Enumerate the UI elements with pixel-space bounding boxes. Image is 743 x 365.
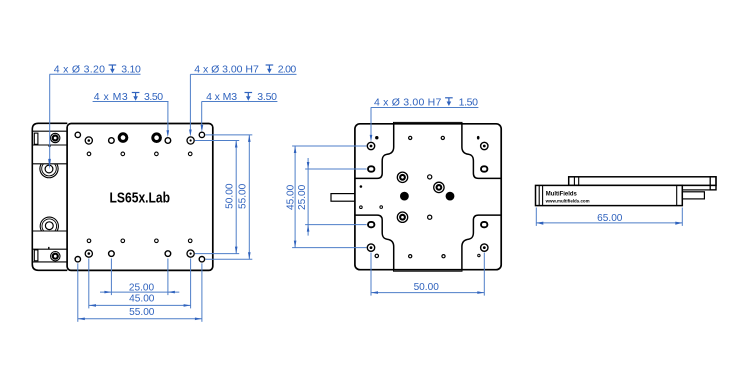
bracket bottom band bottom line — [32, 261, 67, 263]
25.00 dim line outside segments — [100, 291, 179, 293]
bracket boss1 top line — [32, 163, 67, 165]
55.00 vertical dim line — [248, 135, 250, 259]
55.00 left-view arrows — [248, 135, 251, 142]
bracket line top band bottom — [32, 144, 67, 146]
45-spacing hole TR outer — [187, 137, 194, 144]
small holes bottom row — [87, 239, 91, 243]
label1 leader — [49, 74, 51, 161]
bracket tiny dot — [49, 145, 51, 147]
label3 leader — [189, 74, 191, 133]
svg-text:65.00: 65.00 — [597, 213, 623, 224]
45-spacing hole BL outer — [85, 250, 92, 257]
lead screw tab left — [331, 194, 355, 202]
55.00 dim line — [78, 318, 202, 320]
25-spacing hole BR — [165, 251, 171, 257]
65.00 arrows — [536, 222, 543, 225]
45-spacing hole BR dot — [190, 253, 192, 255]
corner hole TR — [199, 132, 204, 137]
25-spacing hole TL — [109, 138, 115, 144]
center screw 1 — [397, 172, 407, 182]
small mark top-right filled — [477, 136, 480, 140]
dowel hole dia3 H7 TL — [367, 142, 374, 149]
dowel hole dia3 H7 BR — [481, 244, 488, 251]
corner hole BR — [199, 257, 204, 262]
arrowheads — [48, 125, 682, 320]
25.00 vertical dim outside segments center — [307, 158, 309, 236]
45.00 vertical dim line center — [294, 146, 296, 248]
bracket bottom band slot rect — [34, 250, 38, 261]
small holes bottom middle — [409, 255, 412, 258]
65.00 dim line — [536, 222, 682, 224]
45-spacing hole BL dot — [88, 252, 91, 255]
screw tab right — [682, 192, 704, 199]
center small hole bottom — [428, 215, 432, 219]
svg-text:50.00: 50.00 — [414, 282, 440, 293]
leader arrow label3 — [189, 130, 192, 137]
svg-text:4 x Ø 3.00 H7: 4 x Ø 3.00 H7 — [374, 96, 441, 108]
depth symbol label2 — [132, 93, 140, 101]
center filled dowel right — [446, 192, 455, 201]
small holes top row — [87, 152, 91, 156]
50.00 vertical dim line — [235, 141, 237, 254]
center small hole top — [428, 175, 432, 179]
label4 leader — [201, 102, 203, 130]
45-spacing hole TR dot — [190, 139, 192, 141]
corner hole TL — [75, 132, 80, 137]
obround slot BL — [368, 222, 374, 227]
lower bar left end strip — [538, 185, 540, 205]
bracket boss2 inner arc — [42, 219, 57, 231]
25-spacing hole BL — [109, 251, 115, 257]
center 50.00 arrows — [371, 291, 378, 294]
bracket boss1 hole (4 x dia 3.20 target) — [45, 165, 53, 173]
center filled dowel left — [400, 192, 409, 201]
label1 underline — [50, 73, 141, 75]
50.00 left-view arrows — [235, 141, 238, 148]
corner block BL contour — [355, 215, 394, 270]
25-spacing hole TR — [165, 138, 171, 144]
table edge tab top — [394, 122, 463, 124]
svg-text:50.00: 50.00 — [224, 183, 235, 209]
upper bar left end cap line — [573, 177, 575, 186]
bracket bottom band top line — [32, 248, 67, 250]
left view right dims: ext lines — [206, 134, 253, 136]
corner block TL contour — [355, 124, 394, 179]
left column dots — [360, 185, 363, 188]
upper bar right lower flange — [682, 185, 716, 190]
bracket bottom band tick — [48, 247, 50, 250]
svg-text:4 x Ø 3.20: 4 x Ø 3.20 — [54, 64, 105, 76]
svg-text:2.00: 2.00 — [278, 64, 297, 76]
left view bottom ext lines — [77, 263, 79, 322]
label5 leader — [370, 108, 372, 139]
svg-text:4 x M3: 4 x M3 — [94, 91, 128, 103]
svg-text:45.00: 45.00 — [129, 294, 155, 305]
svg-text:25.00: 25.00 — [297, 184, 308, 210]
depth symbols (bar + down arrow) — [109, 65, 453, 106]
svg-text:MultiFields: MultiFields — [546, 191, 578, 198]
bracket bottom band screw socket — [54, 255, 57, 258]
depth symbol label3 — [266, 65, 274, 73]
label3 underline — [190, 73, 296, 75]
svg-text:45.00: 45.00 — [286, 184, 297, 210]
55.00 bottom arrows — [78, 318, 85, 321]
svg-text:3.10: 3.10 — [121, 64, 141, 76]
small mark bottom-left — [375, 254, 378, 257]
center 25.00 outside arrows — [307, 162, 310, 169]
bracket top band slot rect — [34, 133, 38, 144]
lower base bar — [536, 185, 683, 205]
main plate outline center view — [355, 124, 501, 270]
bracket boss2 hole — [45, 222, 53, 230]
svg-text:www.multifields.com: www.multifields.com — [545, 198, 590, 203]
bracket top band screw inner — [52, 135, 58, 141]
bracket bottom band screw outer — [51, 252, 60, 261]
bracket top band screw socket — [54, 137, 57, 140]
leader arrow label4 — [201, 125, 204, 132]
corner hole BL — [75, 257, 80, 262]
big socket screw right — [151, 132, 162, 143]
50.00 dim line center — [371, 292, 484, 294]
upper bar right end cap — [710, 177, 716, 190]
label2 leader — [167, 102, 169, 135]
label5 underline — [371, 107, 479, 109]
svg-text:4 x Ø 3.00 H7: 4 x Ø 3.00 H7 — [194, 64, 259, 76]
45-spacing hole TL outer — [85, 137, 92, 144]
svg-text:4 x M3: 4 x M3 — [206, 91, 237, 103]
depth symbol label5 — [445, 98, 453, 106]
depth symbol label4 — [245, 93, 253, 101]
depth symbol label1 — [109, 65, 117, 73]
corner block BR contour — [462, 215, 501, 270]
25.00 arrows (outside) — [104, 291, 111, 294]
bracket boss2 outer arc — [40, 217, 58, 231]
45.00 arrows — [89, 304, 96, 307]
obround slot TR — [481, 166, 487, 171]
svg-text:55.00: 55.00 — [237, 183, 248, 209]
45.00 dim line — [89, 304, 191, 306]
bracket boss1 inner arc — [42, 164, 57, 176]
45-spacing hole TL dot — [88, 139, 91, 142]
bracket line top band top — [32, 130, 67, 132]
leader arrow label5 — [370, 135, 373, 142]
center view left ext lines — [292, 145, 366, 147]
svg-text:1.50: 1.50 — [459, 96, 479, 108]
bracket top band screw outer — [51, 133, 60, 142]
obround slot TL — [368, 166, 374, 171]
left bracket outline — [32, 123, 67, 270]
bracket boss1 outer arc — [40, 164, 58, 178]
small holes top middle — [409, 136, 412, 139]
upper platform bar — [569, 177, 716, 186]
label4 underline — [202, 101, 278, 103]
center screw 2 — [397, 212, 407, 222]
center bottom ext lines — [370, 253, 372, 296]
small mark bottom-right — [478, 254, 480, 256]
leader arrow label1 — [48, 159, 51, 169]
svg-text:3.50: 3.50 — [144, 91, 163, 103]
corner block TR contour — [462, 124, 501, 179]
center 45.00 arrows — [294, 146, 297, 153]
bracket bottom band screw inner — [52, 253, 58, 259]
obround slot BR — [481, 222, 487, 227]
dowel hole dia3 H7 TR — [481, 142, 488, 149]
svg-text:25.00: 25.00 — [129, 283, 155, 294]
svg-text:3.50: 3.50 — [257, 91, 277, 103]
45-spacing hole BR outer — [187, 250, 194, 257]
main plate outline left view — [67, 124, 213, 271]
big socket screw left — [118, 132, 129, 143]
small mark top-left filled — [375, 136, 378, 139]
label2 underline — [93, 101, 169, 103]
bracket boss2 bottom line — [32, 230, 67, 232]
dimension texts — [54, 64, 623, 318]
svg-text:55.00: 55.00 — [129, 307, 155, 318]
leader arrow label2 — [167, 130, 170, 137]
lower bar right end strip — [676, 185, 678, 205]
dowel hole dia3 H7 BL — [367, 244, 374, 251]
svg-text:LS65x.Lab: LS65x.Lab — [110, 189, 171, 206]
table edge tab bottom — [394, 269, 463, 271]
side view ext lines — [535, 208, 537, 226]
center screw 3 — [434, 182, 444, 192]
